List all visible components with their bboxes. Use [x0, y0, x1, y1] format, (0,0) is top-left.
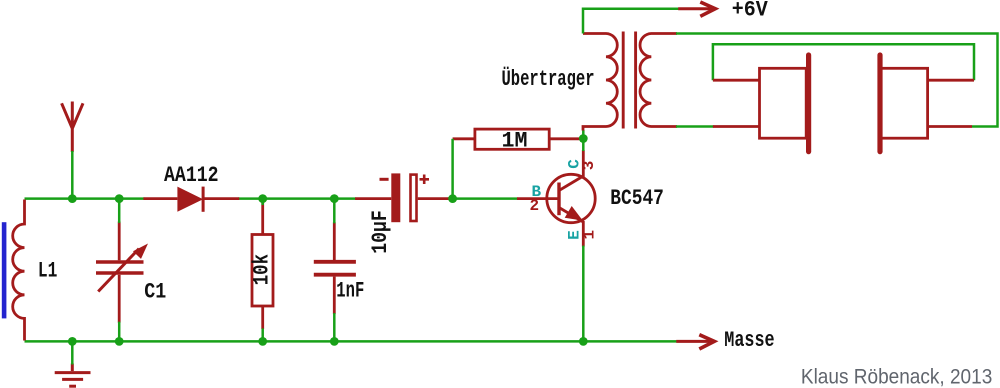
electrolytic capacitor C2 10uF [355, 173, 449, 222]
wire bottom rail [25, 340, 677, 343]
svg-text:Masse: Masse [724, 328, 774, 353]
speaker LS2 [880, 55, 974, 152]
svg-text:L1: L1 [38, 259, 58, 284]
variable capacitor C1 [96, 222, 144, 323]
svg-text:AA112: AA112 [164, 163, 219, 188]
svg-text:Klaus Röbenack, 2013: Klaus Röbenack, 2013 [801, 366, 992, 388]
junction node C1 top [115, 194, 124, 203]
wire 1M left down to base node [451, 139, 454, 199]
svg-text:10k: 10k [250, 254, 275, 285]
svg-text:10µF: 10µF [368, 210, 393, 254]
L1 ferrite core bar [2, 222, 7, 318]
svg-text:1: 1 [580, 230, 598, 240]
wire secondary top to right edge [676, 34, 998, 127]
ground arrow Masse [676, 335, 714, 349]
junction node 10k top [258, 194, 267, 203]
C2 minus sign [380, 178, 389, 181]
Q1 emitter arrow [565, 206, 583, 221]
junction node base/1M [448, 194, 457, 203]
junction node ground rail left [68, 337, 77, 346]
C1 arrow head [133, 244, 148, 259]
node collector junction wires [582, 130, 585, 139]
svg-text:1M: 1M [502, 128, 528, 153]
svg-text:3: 3 [580, 161, 598, 171]
wire top rail left (L1 to diode) [25, 197, 145, 200]
diode AA112 D1 [143, 187, 239, 212]
wire inner loop speaker tops [713, 44, 974, 80]
junction node C1 bottom [115, 337, 124, 346]
svg-text:BC547: BC547 [610, 186, 664, 211]
resistor R2 1M [453, 129, 580, 149]
svg-text:1nF: 1nF [336, 278, 364, 303]
wire ground stub [71, 341, 74, 364]
svg-text:2: 2 [530, 197, 540, 215]
wire top rail right (10uF to base) [448, 197, 518, 200]
junction node 1nF top [330, 194, 339, 203]
junction node collector/1M/transformer [579, 134, 588, 143]
C1 top wire stub [118, 199, 121, 223]
svg-text:+6V: +6V [732, 0, 769, 22]
ground symbol GND [55, 364, 91, 387]
speaker LS1 [713, 55, 809, 152]
power arrow +6V [678, 2, 715, 16]
svg-text:C1: C1 [144, 280, 166, 305]
transformer T1 core [623, 32, 635, 129]
wire collector to node [582, 139, 585, 152]
C2 plus sign [420, 175, 430, 185]
wire +6V riser [583, 9, 679, 34]
svg-text:Übertrager: Übertrager [502, 66, 595, 92]
transformer T1 primary [583, 34, 617, 131]
transistor Q1 BC547 [517, 150, 595, 247]
junction node antenna/top rail [68, 194, 77, 203]
junction node 1nF bottom [330, 337, 339, 346]
capacitor C3 1nF [314, 199, 356, 342]
junction node emitter bottom [579, 337, 588, 346]
inductor L1 [13, 200, 25, 341]
wire top rail middle (diode to 10uF) [238, 197, 356, 200]
C1 bottom wire stub [118, 322, 121, 342]
antenna ANT1 [62, 102, 83, 153]
wire secondary bottom to speaker LS1 [676, 125, 714, 128]
wire antenna to top rail [71, 151, 74, 199]
junction node 10k bottom [258, 337, 267, 346]
transformer T1 secondary [640, 34, 677, 127]
resistor R1 10k [252, 199, 273, 342]
wire emitter to bottom rail [582, 246, 585, 342]
